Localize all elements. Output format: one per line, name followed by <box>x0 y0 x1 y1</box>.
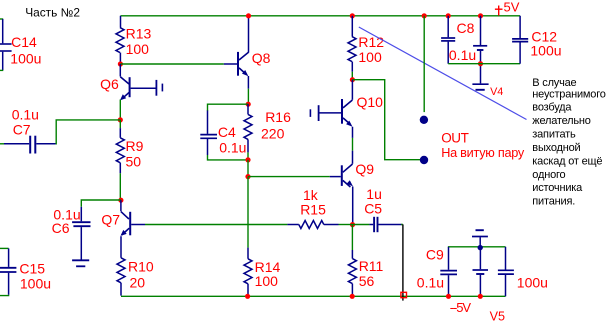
wire C5 drop <box>402 224 404 300</box>
svg-text:100: 100 <box>126 41 150 57</box>
wire <box>339 224 353 226</box>
wire <box>423 16 425 112</box>
node Q9/R15/C5/R11 <box>350 222 355 227</box>
wire <box>351 16 353 37</box>
svg-text:одного: одного <box>532 169 565 181</box>
svg-text:запитать: запитать <box>532 129 576 141</box>
node rail/OUT <box>422 13 427 18</box>
node OUT top <box>420 116 428 124</box>
svg-text:C8: C8 <box>457 20 475 36</box>
svg-text:выходной: выходной <box>532 142 580 154</box>
svg-text:каскад от ещё: каскад от ещё <box>532 156 602 168</box>
svg-text:100u: 100u <box>530 42 561 58</box>
capacitor C6 <box>72 207 90 260</box>
node V5 bus <box>478 245 483 250</box>
node R9/Q7/C6 <box>118 198 123 203</box>
wire <box>351 225 353 250</box>
wire <box>324 224 339 226</box>
svg-text:желательно: желательно <box>532 115 590 127</box>
callout line <box>359 27 527 120</box>
wire <box>351 62 353 72</box>
node rail/Q8 <box>246 13 251 18</box>
svg-text:C7: C7 <box>13 121 31 137</box>
svg-text:0.1u: 0.1u <box>417 274 444 290</box>
wire bottom rail <box>121 295 506 297</box>
wire <box>208 155 249 160</box>
wire <box>352 223 354 225</box>
wire <box>247 284 249 295</box>
node R13/Q6 <box>118 61 123 66</box>
svg-text:1u: 1u <box>366 186 382 202</box>
svg-text:1k: 1k <box>303 187 319 203</box>
battery V5 bottom cell <box>473 248 489 294</box>
wire <box>247 177 249 248</box>
transistor Q9 <box>330 164 353 223</box>
node Q8/R16/C4 <box>246 102 251 107</box>
battery V5 top cell <box>472 230 488 246</box>
svg-text:100u: 100u <box>517 274 548 290</box>
node R16/C4 bottom <box>245 157 250 162</box>
svg-text:Q7: Q7 <box>101 212 120 228</box>
ground C6 <box>72 260 89 266</box>
node rail/C8 <box>446 13 451 18</box>
wire <box>0 247 9 249</box>
wire +5V rail <box>121 15 521 17</box>
capacitor C12 <box>512 16 528 64</box>
resistor R14 <box>244 259 252 284</box>
svg-text:100: 100 <box>255 273 279 289</box>
wire <box>351 284 353 295</box>
svg-text:V4: V4 <box>490 86 503 98</box>
resistor R12 <box>348 37 356 62</box>
svg-text:100u: 100u <box>20 276 51 292</box>
node rail/R11 <box>350 294 355 299</box>
wire <box>352 151 354 164</box>
wire <box>353 224 370 226</box>
transistor Q10 <box>319 80 352 138</box>
svg-text:56: 56 <box>359 273 375 289</box>
battery V4 top cell <box>473 16 487 84</box>
capacitor C15 <box>0 248 16 294</box>
svg-text:C9: C9 <box>426 246 444 262</box>
wire <box>119 120 121 128</box>
capacitor C9b <box>498 247 514 296</box>
node rail/V5 <box>478 294 483 299</box>
capacitor C9a <box>440 247 457 294</box>
svg-text:0.1u: 0.1u <box>12 106 39 122</box>
svg-text:Q8: Q8 <box>252 50 271 66</box>
capacitor C5 <box>369 217 401 232</box>
capacitor C7 <box>4 136 56 154</box>
resistor R9 <box>116 138 124 163</box>
node rail/R12 <box>350 13 355 18</box>
svg-text:Часть №2: Часть №2 <box>25 5 80 19</box>
svg-text:C14: C14 <box>11 34 37 50</box>
resistor R16 <box>244 114 252 139</box>
svg-text:100u: 100u <box>10 51 41 67</box>
svg-text:--5V: --5V <box>450 300 472 315</box>
svg-text:R11: R11 <box>359 258 384 274</box>
node C8/C12 bus <box>478 61 483 66</box>
svg-text:C15: C15 <box>19 260 45 276</box>
wire <box>247 160 249 177</box>
svg-text:питания.: питания. <box>532 196 575 208</box>
wire <box>247 89 249 102</box>
terminal pad <box>401 292 407 297</box>
svg-text:Q10: Q10 <box>357 94 384 110</box>
wire <box>351 250 353 259</box>
wire <box>119 53 121 64</box>
wire <box>208 104 249 111</box>
svg-text:5V: 5V <box>504 0 520 14</box>
wire <box>0 69 3 71</box>
battery V4 bottom cell <box>472 84 488 90</box>
wire <box>401 224 403 226</box>
svg-text:неустранимого: неустранимого <box>532 88 605 100</box>
capacitor C14 <box>0 19 12 70</box>
node R14/Q9 base <box>245 174 250 179</box>
transistor Q8 <box>237 16 249 89</box>
svg-text:C4: C4 <box>218 124 236 140</box>
transistor Q7 <box>121 200 146 258</box>
svg-text:R15: R15 <box>300 202 326 218</box>
wire <box>247 248 249 259</box>
wire <box>0 294 9 297</box>
wire <box>81 200 121 207</box>
svg-text:R16: R16 <box>265 109 291 125</box>
wire <box>119 100 121 120</box>
node rail/C9a <box>446 294 451 299</box>
svg-text:C6: C6 <box>52 220 70 236</box>
power +5V <box>495 6 503 16</box>
resistor R15 <box>299 221 324 229</box>
svg-text:R12: R12 <box>358 34 384 50</box>
transistor Q6 <box>120 64 156 100</box>
node rail/V4 <box>478 13 483 18</box>
svg-text:Q9: Q9 <box>355 161 374 177</box>
wire <box>247 104 249 114</box>
resistor R1 3lead <box>120 16 122 28</box>
resistor R10 <box>117 258 125 283</box>
svg-text:На витую пару: На витую пару <box>441 146 525 160</box>
wire <box>145 224 287 226</box>
svg-text:50: 50 <box>126 153 142 169</box>
wire <box>247 139 249 152</box>
capacitor C8 <box>441 16 455 64</box>
node R12/Q10/out <box>350 77 355 82</box>
svg-text:R13: R13 <box>126 25 152 41</box>
wire <box>352 138 354 151</box>
wire <box>247 152 249 160</box>
svg-text:OUT: OUT <box>441 130 468 145</box>
svg-text:R10: R10 <box>128 258 154 274</box>
svg-text:0.1u: 0.1u <box>219 140 246 156</box>
wire <box>224 63 237 65</box>
wire <box>248 176 330 178</box>
wire <box>120 63 223 65</box>
wire <box>119 128 121 138</box>
svg-text:Q6: Q6 <box>100 76 119 92</box>
node OUT bottom <box>420 156 428 164</box>
node Q6/C7/R9 <box>118 117 123 122</box>
wire <box>0 143 5 145</box>
svg-text:В случае: В случае <box>532 77 576 89</box>
svg-text:V5: V5 <box>490 310 505 323</box>
svg-text:20: 20 <box>130 275 146 291</box>
wire <box>351 72 353 78</box>
svg-text:источника: источника <box>532 182 583 194</box>
svg-text:возбуда: возбуда <box>532 102 572 114</box>
wire <box>287 224 298 226</box>
node rail/R14 <box>245 294 250 299</box>
resistor R13 <box>116 28 124 53</box>
svg-text:0.1u: 0.1u <box>449 47 476 63</box>
terminal Q6 base <box>156 80 164 96</box>
wire <box>352 80 420 160</box>
svg-text:C5: C5 <box>364 201 382 217</box>
wire <box>119 163 121 174</box>
wire C9 bus <box>448 246 506 248</box>
svg-text:220: 220 <box>261 126 285 142</box>
wire <box>120 283 122 296</box>
wire <box>0 18 3 20</box>
capacitor C4 <box>200 111 217 156</box>
wire <box>119 173 121 200</box>
resistor R11 <box>348 259 356 284</box>
svg-text:100: 100 <box>358 49 382 65</box>
terminal Q10 base <box>310 105 320 121</box>
wire <box>56 120 121 144</box>
svg-text:R9: R9 <box>126 138 144 154</box>
wire C8/C12 bus <box>448 63 520 65</box>
